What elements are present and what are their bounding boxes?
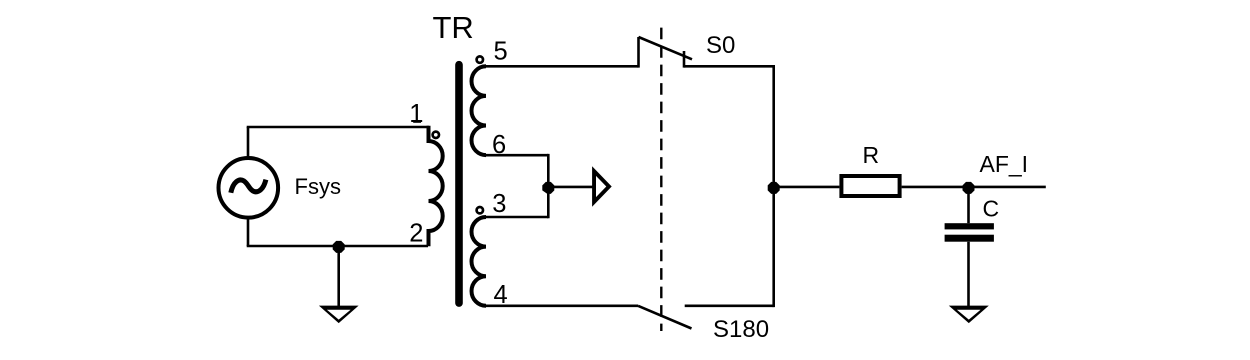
wire pin 4 to switch S180 [486,304,638,307]
svg-text:Fsys: Fsys [295,174,341,199]
switch S0 right contact tick [683,51,686,68]
svg-text:AF_I: AF_I [980,151,1029,177]
port arrow triangle [592,166,612,206]
wire pin 3 horizontal [486,216,548,219]
svg-text:C: C [983,196,1000,222]
svg-text:5: 5 [494,38,508,66]
wire source bottom vertical [247,218,250,246]
svg-text:R: R [863,142,880,168]
ganged switch dashed link [660,28,662,331]
switch S0 left post [637,37,640,68]
wire center tap vertical [547,154,550,218]
wire node AF_I to right end [969,186,1046,189]
junction node AF_I [963,182,975,194]
svg-text:S0: S0 [706,32,735,59]
capacitor C top plate [945,223,994,229]
junction center tap [542,182,554,194]
polarity dot pin 5 [477,56,483,62]
wire bottom horizontal to pin 2 [247,245,428,248]
svg-text:2: 2 [409,220,423,248]
junction right bus [768,182,780,194]
svg-text:1: 1 [409,100,423,128]
wire top horizontal to pin 1 [247,126,429,129]
switch S180 blade [638,306,692,329]
wire source top vertical [247,127,250,158]
transformer TR primary winding [429,126,443,247]
AC source sine symbol [231,180,266,193]
wire pin 5 to switch S0 [486,65,639,68]
transformer secondary winding 3-4 [472,217,486,306]
wire S0 to right vertical [684,65,774,68]
ground symbol right [949,306,989,324]
capacitor C bottom plate [945,235,994,242]
wire capacitor to ground [967,242,970,306]
AC source V1 circle [219,158,279,218]
wire S180 to right vertical [685,304,774,307]
svg-text:3: 3 [492,190,506,218]
junction at ground tap [333,241,345,253]
ground symbol left [319,306,359,324]
wire node to capacitor [967,187,970,223]
wire junction to resistor [774,186,840,189]
wire junction to ground [337,246,340,306]
polarity dot pin 3 [477,207,483,213]
polarity dot pin 1 [433,132,439,138]
svg-text:S180: S180 [713,316,769,343]
transformer core bar [455,61,463,307]
transformer secondary winding 5-6 [472,66,487,155]
wire right vertical bus [772,65,775,307]
wire center tap to port [548,186,592,189]
wire resistor to node AF_I [902,186,969,189]
wire pin 6 horizontal [486,154,548,157]
resistor R body [841,176,899,196]
svg-text:TR: TR [433,10,474,45]
switch S0 blade [639,37,693,59]
